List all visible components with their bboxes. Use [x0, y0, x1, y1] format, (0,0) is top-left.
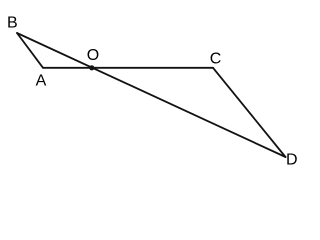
- svg-text:C: C: [210, 51, 222, 68]
- svg-text:D: D: [286, 151, 298, 168]
- svg-text:B: B: [7, 14, 18, 31]
- svg-text:A: A: [36, 72, 47, 89]
- svg-text:O: O: [87, 47, 99, 64]
